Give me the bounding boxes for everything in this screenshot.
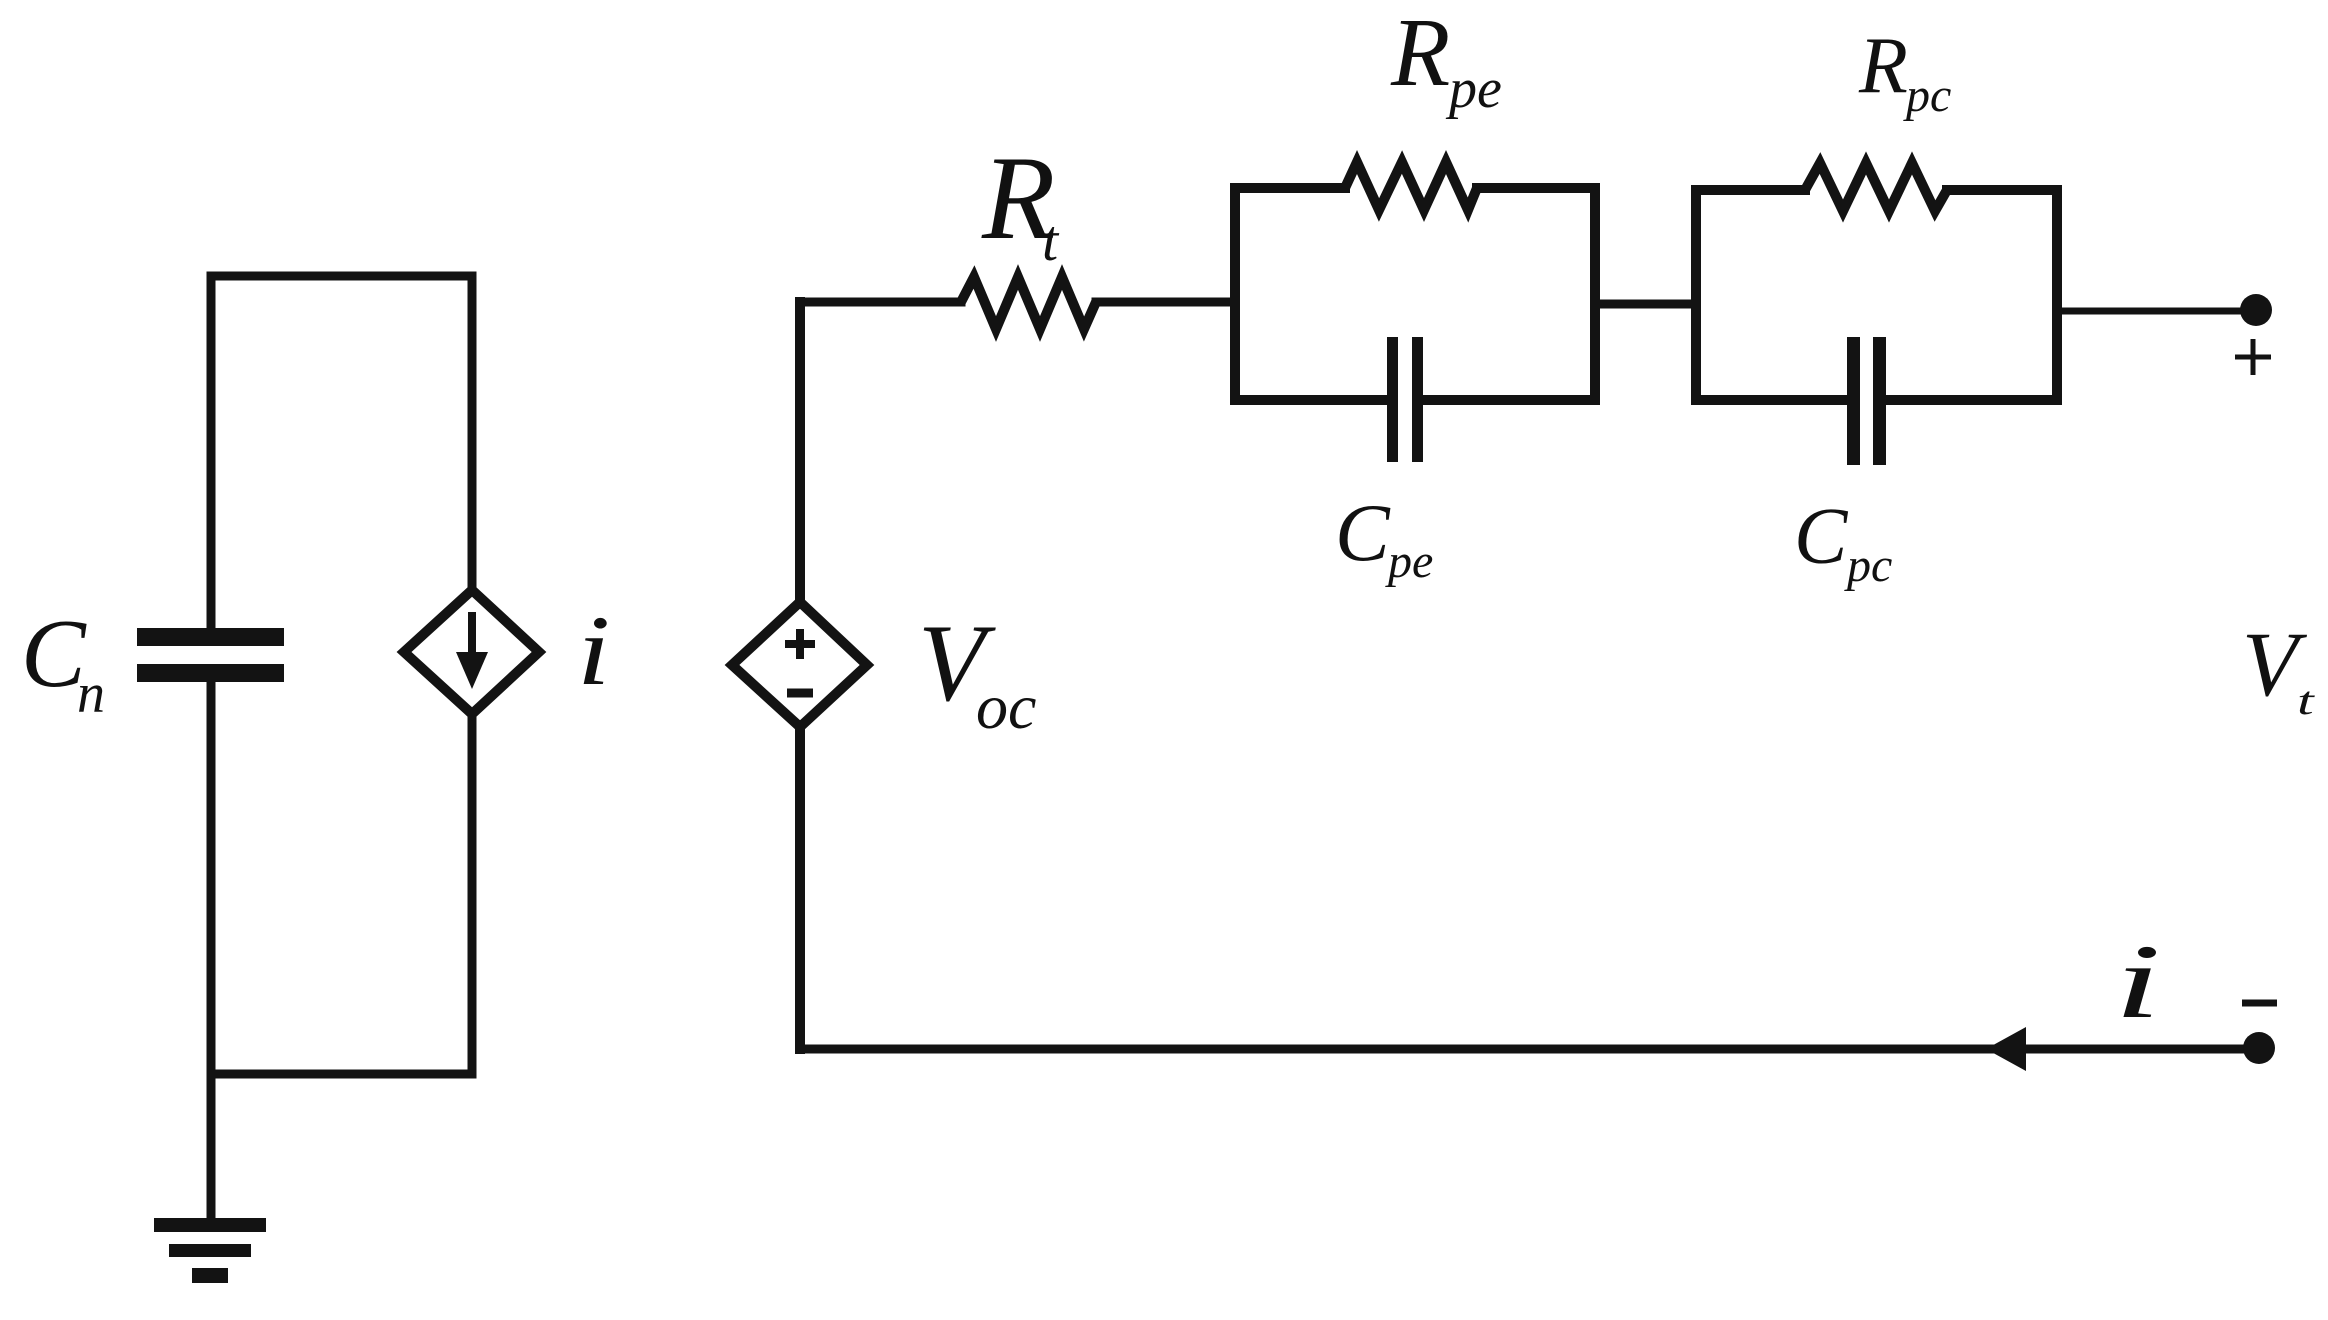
wire Voc bottom vertical: [795, 725, 805, 1049]
wire left-loop top-left vertical: [207, 276, 216, 628]
wire left-loop bottom horizontal: [211, 1070, 472, 1079]
svg-text:oc: oc: [976, 671, 1036, 742]
ground: [154, 1218, 266, 1283]
svg-text:n: n: [77, 663, 105, 725]
svg-text:R: R: [1858, 22, 1908, 110]
wire bottom horizontal: [800, 1045, 2243, 1054]
wire left-loop right vertical lower: [468, 712, 477, 1074]
node terminal minus: [2243, 1032, 2275, 1064]
arrowhead current direction: [1986, 1027, 2026, 1071]
wire left-loop right vertical upper: [468, 276, 477, 592]
capacitor Cpc: [1847, 337, 1886, 465]
plus sign terminal: [2235, 339, 2271, 375]
wire left-loop top horizontal: [211, 272, 472, 281]
svg-text:C: C: [1335, 487, 1391, 578]
wire box1 to box2: [1595, 300, 1696, 309]
svg-text:i: i: [2114, 923, 2161, 1041]
svg-text:C: C: [1794, 493, 1849, 581]
resistor Rpc: [1805, 163, 1947, 211]
node parallel box 1: [1235, 188, 1595, 400]
svg-text:pe: pe: [1445, 58, 1502, 120]
wire Voc top to main line: [795, 302, 805, 604]
svg-text:pc: pc: [1844, 539, 1892, 592]
svg-text:i: i: [577, 595, 610, 705]
voltage source Voc (dependent, diamond): [732, 602, 867, 727]
minus sign terminal: [2242, 1000, 2277, 1007]
svg-text:t: t: [2297, 679, 2316, 723]
wire Rt to box1: [1096, 298, 1235, 307]
resistor Rt: [961, 277, 1096, 329]
svg-text:pc: pc: [1903, 69, 1951, 122]
node terminal plus: [2240, 294, 2272, 326]
wire left-loop left vertical lower: [207, 682, 216, 1218]
capacitor Cpe: [1387, 337, 1423, 462]
resistor Rpe: [1345, 162, 1477, 210]
svg-text:pe: pe: [1385, 535, 1433, 588]
svg-text:R: R: [1390, 0, 1450, 106]
current source i (dependent, diamond): [404, 590, 539, 714]
node parallel box 2: [1696, 190, 2057, 400]
capacitor Cn: [137, 628, 284, 682]
svg-text:t: t: [1042, 208, 1060, 273]
wire main to Rt: [800, 298, 961, 307]
wire box2 to terminal +: [2057, 308, 2242, 315]
